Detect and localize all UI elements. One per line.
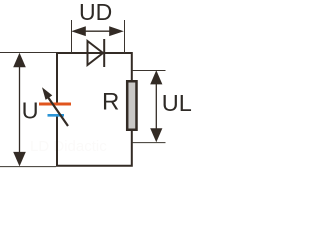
voltage arrow UD tick left (71, 20, 73, 53)
voltage arrow UL (double headed) (150, 70, 162, 142)
source U: variable arrow (42, 87, 68, 126)
diode (on top wire) (88, 39, 105, 67)
svg-text:UD: UD (79, 0, 112, 25)
voltage arrow U (double headed) (13, 53, 26, 167)
voltage arrow UD tick right (124, 20, 126, 53)
resistor R (127, 81, 136, 130)
svg-text:LD Didactic: LD Didactic (30, 138, 107, 155)
voltage U tick top (0, 52, 56, 54)
voltage UL tick bottom (132, 142, 166, 144)
svg-text:R: R (102, 88, 119, 115)
wire bottom (57, 116, 132, 166)
voltage U tick bottom (0, 166, 56, 168)
voltage arrow UD (double headed) (71, 26, 124, 36)
source U: positive plate (39, 103, 71, 106)
voltage UL tick top (132, 70, 166, 72)
svg-text:UL: UL (162, 90, 192, 116)
wire top (node between diode anode and cathode sides) (57, 53, 132, 104)
source U: negative plate (48, 114, 65, 117)
svg-text:U: U (22, 98, 39, 124)
